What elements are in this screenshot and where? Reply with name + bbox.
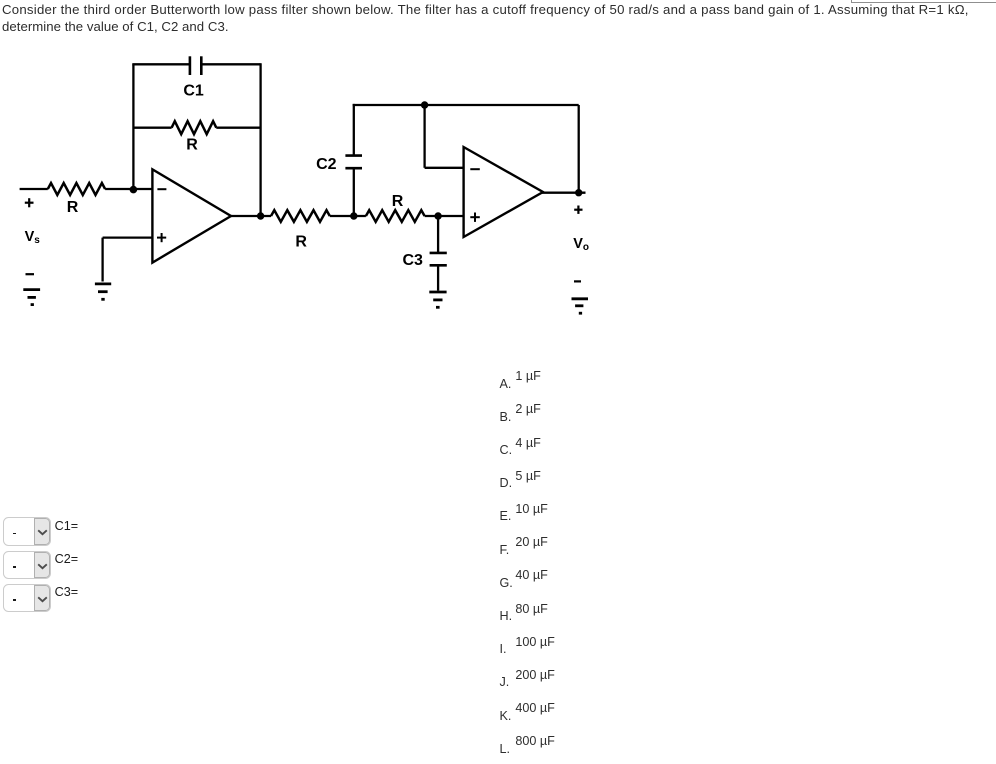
op-amp U2	[464, 147, 543, 237]
svg-text:C2: C2	[316, 156, 337, 173]
wire feedback R row left	[133, 127, 171, 129]
node U2 output junction dot	[575, 189, 582, 196]
svg-text:C1: C1	[183, 83, 204, 100]
wire C3 to ground	[437, 265, 439, 290]
wire C1 right plate to right vertical	[201, 63, 260, 65]
wire U2 output	[541, 192, 586, 194]
wire top to C1 left plate	[132, 63, 190, 65]
resistor R (middle second)	[366, 210, 425, 222]
op-amp U1	[152, 169, 231, 262]
capacitor C2	[345, 156, 362, 169]
Vo - terminal sign	[574, 280, 581, 282]
wire right vertical to U2 output	[578, 105, 580, 193]
svg-text:Vs: Vs	[25, 229, 41, 246]
resistor R (middle first)	[271, 210, 330, 222]
wire inverting input U2	[425, 167, 464, 169]
wire input from Vs + terminal	[20, 188, 48, 190]
svg-text:R: R	[295, 234, 307, 251]
capacitor C1	[190, 56, 201, 75]
node U1 output junction dot	[257, 212, 264, 219]
Vs - terminal sign	[26, 273, 35, 275]
svg-text:R: R	[186, 137, 198, 154]
wire feedback right vertical to output node	[259, 63, 261, 216]
wire non-inverting input U1	[103, 236, 153, 238]
svg-text:C3: C3	[402, 252, 423, 269]
node C2 junction dot	[350, 212, 357, 219]
ground (Vo)	[572, 299, 589, 313]
ground (U1 +)	[95, 284, 111, 299]
wire U1 output	[229, 215, 271, 217]
ground (Vs)	[23, 290, 40, 305]
wire feedback R row right	[216, 127, 260, 129]
svg-text:R: R	[392, 193, 404, 210]
svg-text:R: R	[67, 199, 79, 216]
node top rail junction dot	[421, 101, 428, 108]
wire R to non-inverting input U2	[425, 215, 464, 217]
wire between middle resistors	[330, 215, 366, 217]
wire to ground (U1 +)	[101, 238, 103, 282]
resistor R (feedback)	[172, 121, 217, 134]
node C3 junction dot	[434, 212, 441, 219]
wire C2 lower	[353, 168, 355, 216]
wire inverting branch vertical	[423, 105, 425, 168]
node A junction dot (inverting input)	[130, 186, 138, 194]
wire top feedback rail U2	[353, 104, 579, 106]
svg-text:Vo: Vo	[573, 236, 589, 253]
Vs + terminal sign	[25, 198, 34, 207]
Vo + terminal sign	[574, 206, 582, 214]
wire C2 upper to top rail	[353, 104, 355, 156]
wire input R to inverting input node	[105, 188, 152, 190]
ground (C3)	[429, 292, 446, 307]
wire C3 upper	[437, 216, 439, 253]
capacitor C3	[430, 253, 447, 265]
wire feedback left vertical	[132, 64, 134, 189]
resistor R (input)	[48, 183, 105, 195]
